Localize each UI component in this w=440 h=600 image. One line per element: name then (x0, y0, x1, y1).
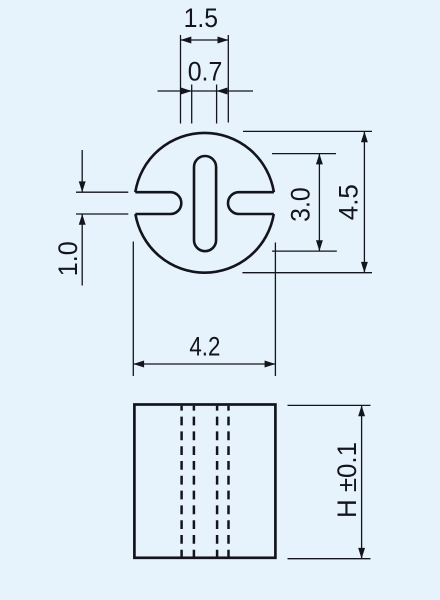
svg-text:H ±0.1: H ±0.1 (331, 442, 362, 518)
svg-text:1.5: 1.5 (184, 2, 218, 33)
svg-text:3.0: 3.0 (285, 187, 316, 222)
svg-text:4.5: 4.5 (332, 184, 363, 220)
svg-text:4.2: 4.2 (189, 331, 220, 362)
svg-text:1.0: 1.0 (52, 241, 83, 276)
svg-text:0.7: 0.7 (188, 55, 223, 86)
